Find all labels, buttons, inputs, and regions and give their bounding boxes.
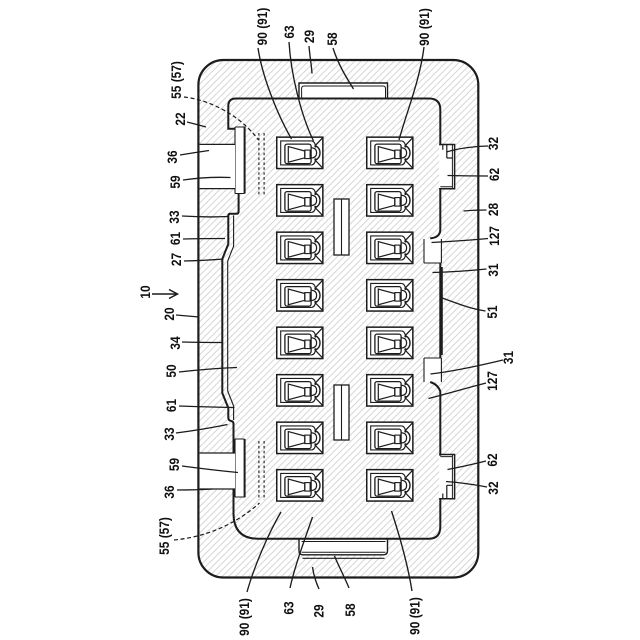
svg-text:63: 63 [281,25,297,38]
outer housing (hatched body) [198,60,478,578]
leader line 36 top [180,151,209,156]
svg-text:90 (91): 90 (91) [406,597,422,635]
center rib upper [334,199,349,255]
hidden seal groove 55/57 lower (dashed) [259,441,264,500]
leader line 33 top [182,215,229,218]
dashed leader 55(57) top [184,97,259,140]
leader line 127 bottom [429,383,487,399]
svg-text:59: 59 [166,458,182,471]
right lower groove 31 [424,358,441,382]
svg-text:31: 31 [485,263,501,276]
terminal cavity right row 3 [367,232,413,263]
bottom mounting tab 58 [299,539,388,559]
leader line 29 top [309,46,312,74]
leader line 61 bottom [179,406,235,408]
svg-text:33: 33 [166,210,182,223]
leader line 29 bottom [313,567,320,589]
leader line 59 bottom [182,466,238,473]
terminal cavity left row 4 [277,280,323,311]
svg-text:10: 10 [137,285,153,298]
terminal cavity right row 6 [367,375,413,406]
leader line 36 bottom [177,489,213,490]
dashed leader 55(57) bottom [174,503,260,540]
terminal cavity left row 5 [277,327,323,358]
svg-text:50: 50 [163,364,179,377]
leader line 90(91) top-left [258,48,292,139]
terminal cavity right row 7 [367,422,413,453]
inner housing boundary wall [222,99,440,539]
svg-text:58: 58 [342,603,358,616]
svg-text:28: 28 [485,203,501,216]
terminal cavity right row 8 [367,470,413,501]
terminal cavity left row 7 [277,422,323,453]
leader line 22 [187,122,206,127]
right upper latch recess 62 with slot 32 [439,145,454,189]
leader line 20 [176,315,199,317]
leader line 61 top [183,238,225,241]
svg-text:59: 59 [167,175,183,188]
arrow of reference 10 [152,290,178,299]
svg-text:36: 36 [161,485,177,498]
svg-text:22: 22 [172,112,188,125]
svg-text:90 (91): 90 (91) [254,8,270,46]
svg-text:51: 51 [484,305,500,318]
svg-text:34: 34 [167,336,183,350]
leader line 127 top [432,239,489,243]
leader line 50 [179,368,237,373]
terminal cavity left row 3 [277,232,323,263]
svg-text:62: 62 [484,453,500,466]
leader line 90(91) top-right [399,47,424,140]
svg-text:61: 61 [167,232,183,245]
svg-text:58: 58 [324,32,340,45]
leader line 90(91) bottom-right [392,511,413,591]
leader line 63 top [289,42,314,141]
leader line 34 [182,341,222,344]
inner wall parallel line (left) [228,216,234,421]
right lower latch recess 62 with slot 32 [439,455,454,499]
terminal cavity left row 8 [277,470,323,501]
center rib lower [334,385,349,440]
svg-text:127: 127 [484,371,500,391]
leader line 33 bottom [176,425,228,434]
leader line 63 bottom [290,517,313,588]
svg-text:31: 31 [500,351,516,364]
svg-text:63: 63 [280,601,296,614]
left upper slot 59 [235,127,245,194]
leader line 90(91) bottom-left [247,512,281,592]
terminal cavity right row 1 [367,137,413,168]
leader line 32 top [447,146,489,152]
terminal cavity left row 6 [277,375,323,406]
svg-text:32: 32 [485,137,501,150]
left lower notch 36 [200,453,235,489]
leader line 32 bottom [446,482,487,488]
leader line 27 [184,259,224,261]
right wall rib 51 [440,267,443,355]
leader line 58 top [333,48,354,89]
svg-text:90 (91): 90 (91) [236,598,252,636]
svg-text:33: 33 [161,427,177,440]
terminal cavity left row 1 [277,137,323,168]
svg-text:29: 29 [301,30,317,43]
terminal cavity left row 2 [277,185,323,216]
svg-text:32: 32 [485,481,501,494]
left upper notch 36 [200,144,235,188]
svg-text:127: 127 [486,226,502,246]
svg-text:90 (91): 90 (91) [416,8,432,46]
leader line 51 [441,298,486,312]
left lower slot 59 [235,439,245,497]
terminal cavity right row 2 [367,185,413,216]
leader line 28 [464,210,487,211]
leader line 59 top [183,177,231,180]
terminal cavity right row 4 [367,280,413,311]
terminal cavity right row 5 [367,327,413,358]
top mounting tab 58 [299,83,388,98]
svg-text:36: 36 [164,150,180,163]
leader line 62 bottom [448,461,487,470]
svg-text:29: 29 [310,604,326,617]
svg-text:55 (57): 55 (57) [168,61,184,99]
svg-text:27: 27 [168,253,184,266]
leader line 31 top [433,269,487,273]
svg-text:61: 61 [163,399,179,412]
leader line 31 bottom [431,360,504,374]
svg-text:55 (57): 55 (57) [156,517,172,555]
right upper groove 31 [424,238,441,263]
svg-text:62: 62 [486,168,502,181]
svg-text:20: 20 [161,307,177,320]
leader line 62 top [448,175,489,178]
hidden seal groove 55/57 upper (dashed) [259,133,264,196]
leader line 58 bottom [335,556,350,588]
